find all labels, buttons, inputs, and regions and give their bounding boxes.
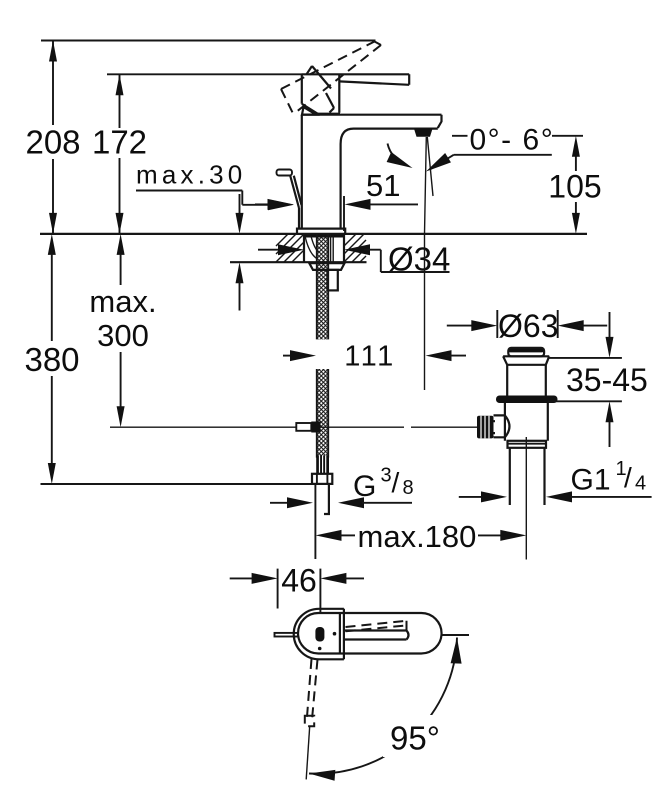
reference line 380 bottom — [41, 483, 313, 485]
faucet: dashed raised lever — [281, 42, 381, 114]
base plate — [297, 229, 345, 234]
braided hose upper — [317, 234, 328, 339]
drain body upper — [507, 365, 546, 396]
drain seal ring — [496, 396, 558, 404]
top view: dashed lever plan — [346, 621, 407, 632]
swivel arc arrow — [388, 144, 408, 166]
dimension Ø63 — [497, 310, 557, 338]
faucet: solid lever back marks — [307, 66, 335, 113]
svg-text:8: 8 — [403, 477, 414, 499]
top view: rod stub — [275, 633, 299, 637]
svg-text:51: 51 — [366, 168, 400, 203]
mounting hole walls — [304, 234, 344, 262]
drain body lower — [505, 403, 548, 441]
rod clamp — [296, 423, 311, 431]
max.30 pointer arrow to rod — [242, 204, 270, 206]
aerator — [414, 129, 433, 137]
extension line 172 — [107, 73, 302, 75]
svg-text:0°- 6°: 0°- 6° — [470, 124, 555, 157]
faucet: handle foot — [302, 107, 316, 115]
svg-text:/: / — [392, 467, 400, 498]
dimension 0-6 degrees — [452, 135, 583, 137]
svg-text:/: / — [624, 462, 632, 493]
dimension 35-45 — [548, 358, 622, 401]
svg-text:Ø34: Ø34 — [388, 241, 450, 278]
dimension 105 — [575, 155, 577, 214]
pop-up rod horizontal — [110, 426, 477, 428]
svg-text:105: 105 — [548, 169, 601, 205]
svg-text:46: 46 — [281, 563, 317, 599]
top view: cartridge hole — [315, 627, 324, 642]
radius line — [306, 726, 310, 779]
svg-text:380: 380 — [24, 341, 79, 378]
knurled knob — [477, 416, 494, 439]
max.30 dimension to countertop — [239, 194, 241, 214]
slip joint — [508, 441, 547, 448]
dimension 380 vertical — [48, 234, 56, 255]
top view: lever — [344, 631, 409, 640]
faucet: lever bar — [302, 74, 409, 85]
label 95 degrees — [383, 715, 443, 757]
svg-text:35-45: 35-45 — [566, 362, 648, 398]
stud lines in hole — [331, 234, 334, 263]
dimension 172 vertical — [119, 74, 121, 234]
svg-text:max.180: max.180 — [358, 519, 477, 554]
dimension 51 — [255, 203, 270, 205]
hose curve in hole — [305, 236, 319, 259]
svg-text:111: 111 — [344, 341, 396, 373]
svg-text:208: 208 — [25, 124, 80, 161]
hose tail pipe — [324, 484, 330, 514]
top view: dots — [333, 632, 337, 636]
braided hose lower — [317, 369, 328, 458]
svg-text:300: 300 — [97, 318, 149, 353]
drain side port — [494, 415, 510, 437]
center line — [525, 437, 527, 560]
hose end fitting — [316, 455, 329, 473]
mounting stud and nut — [328, 270, 338, 291]
top view: body stadium — [298, 613, 442, 654]
svg-text:95°: 95° — [390, 720, 440, 757]
dimension G3/8 — [270, 502, 290, 504]
top view: joint lines — [340, 613, 344, 654]
svg-text:max.: max. — [89, 284, 156, 319]
countertop top line — [40, 233, 587, 235]
drain pop-up cap — [508, 348, 544, 353]
tail pipe — [510, 448, 545, 505]
dimension max.300 vertical — [117, 234, 125, 255]
95 degree arc — [309, 638, 457, 774]
pop-up rod (side view) — [277, 170, 293, 176]
countertop bottom line — [230, 261, 367, 263]
top view: 46 dimension — [278, 569, 321, 613]
faucet: handle block — [302, 74, 340, 114]
svg-text:172: 172 — [92, 124, 147, 161]
svg-text:Ø63: Ø63 — [498, 308, 558, 344]
dimension 208 vertical — [52, 41, 54, 234]
extension line top (208) — [41, 40, 376, 42]
top view: collar — [294, 609, 344, 660]
top view: dashed clamp — [305, 716, 314, 727]
faucet: body and spout — [302, 115, 442, 228]
extension line hose (max.180 left) — [314, 484, 316, 559]
svg-text:G1: G1 — [571, 464, 611, 497]
svg-text:G: G — [353, 470, 376, 503]
washer below counter — [309, 263, 344, 270]
svg-text:max.30: max.30 — [136, 160, 246, 190]
svg-text:3: 3 — [381, 465, 392, 487]
dimension G1 1/4 — [459, 496, 483, 498]
dimension 111 — [283, 355, 292, 357]
dimension max.180 — [316, 530, 342, 541]
top view: reference line — [442, 634, 470, 636]
top view: dashed lever swung — [307, 659, 318, 722]
dimension Ø34 — [258, 249, 284, 251]
svg-text:4: 4 — [635, 473, 646, 495]
countertop hatching left — [276, 234, 304, 262]
water stream lines — [425, 137, 427, 390]
G3/8 nut — [312, 474, 332, 484]
drain upper flange — [503, 356, 549, 365]
countertop hatching right — [344, 234, 366, 262]
